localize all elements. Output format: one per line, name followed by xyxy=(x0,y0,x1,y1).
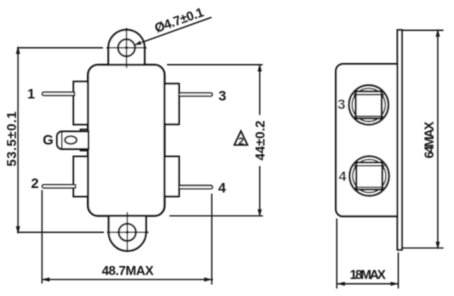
svg-text:1: 1 xyxy=(27,86,35,102)
side terminal 3 outer circle xyxy=(349,85,389,125)
44 bottom extension line xyxy=(169,215,263,217)
dimension 44±0.2 vertical line xyxy=(259,65,261,115)
dimension 53.5±0.1 vertical line xyxy=(17,48,19,233)
svg-text:2: 2 xyxy=(31,175,39,191)
top mounting tab xyxy=(108,30,144,66)
svg-text:4: 4 xyxy=(339,168,347,184)
svg-text:4: 4 xyxy=(218,180,226,196)
svg-text:G: G xyxy=(43,132,54,148)
bottom hole crosshair xyxy=(126,212,128,252)
pin 1 xyxy=(42,92,74,95)
svg-text:3: 3 xyxy=(338,96,346,112)
53.5 bottom extension line xyxy=(17,231,104,233)
dimension 64MAX vertical line xyxy=(437,30,439,248)
top hole crosshair xyxy=(126,28,128,68)
pin 4 xyxy=(179,186,213,189)
64MAX top extension line xyxy=(403,29,444,31)
svg-text:3: 3 xyxy=(219,88,227,104)
terminal base 3 xyxy=(164,84,179,125)
dimension 18MAX line xyxy=(337,283,399,285)
bottom mounting hole xyxy=(119,224,136,241)
svg-text:48.7MAX: 48.7MAX xyxy=(102,263,154,278)
terminal base 1 xyxy=(74,82,89,125)
dimension 48.7MAX line xyxy=(42,279,214,281)
bottom mounting tab xyxy=(109,214,146,251)
side view body xyxy=(336,64,398,216)
hole diameter leader line xyxy=(135,17,212,45)
pin 2 xyxy=(42,185,75,188)
44 top extension line xyxy=(167,64,263,66)
side terminal 4 square xyxy=(356,163,382,190)
pin 3 xyxy=(179,93,212,96)
side terminal 4 outer circle xyxy=(350,156,390,196)
filter body xyxy=(88,65,165,216)
ground tab G xyxy=(57,132,89,150)
svg-text:18MAX: 18MAX xyxy=(350,267,386,282)
18MAX left extension line xyxy=(336,219,338,289)
revision triangle 2 xyxy=(234,131,247,145)
svg-text:64MAX: 64MAX xyxy=(421,121,436,158)
53.5 top extension line xyxy=(17,47,103,49)
ground tab hole xyxy=(65,136,77,144)
ground tab G step xyxy=(81,130,89,151)
48.7 right extension line xyxy=(211,194,213,285)
18MAX right extension line xyxy=(397,253,399,289)
48.7 left extension line xyxy=(41,190,43,284)
side terminal 3 square xyxy=(356,91,382,118)
svg-text:53.5±0.1: 53.5±0.1 xyxy=(4,112,19,167)
svg-text:2: 2 xyxy=(238,137,244,148)
top mounting hole xyxy=(118,39,135,56)
terminal base 4 xyxy=(164,157,179,197)
64MAX bottom extension line xyxy=(403,247,444,249)
terminal base 2 xyxy=(74,157,89,197)
side view flange xyxy=(397,30,402,250)
svg-text:44±0.2: 44±0.2 xyxy=(252,121,267,161)
